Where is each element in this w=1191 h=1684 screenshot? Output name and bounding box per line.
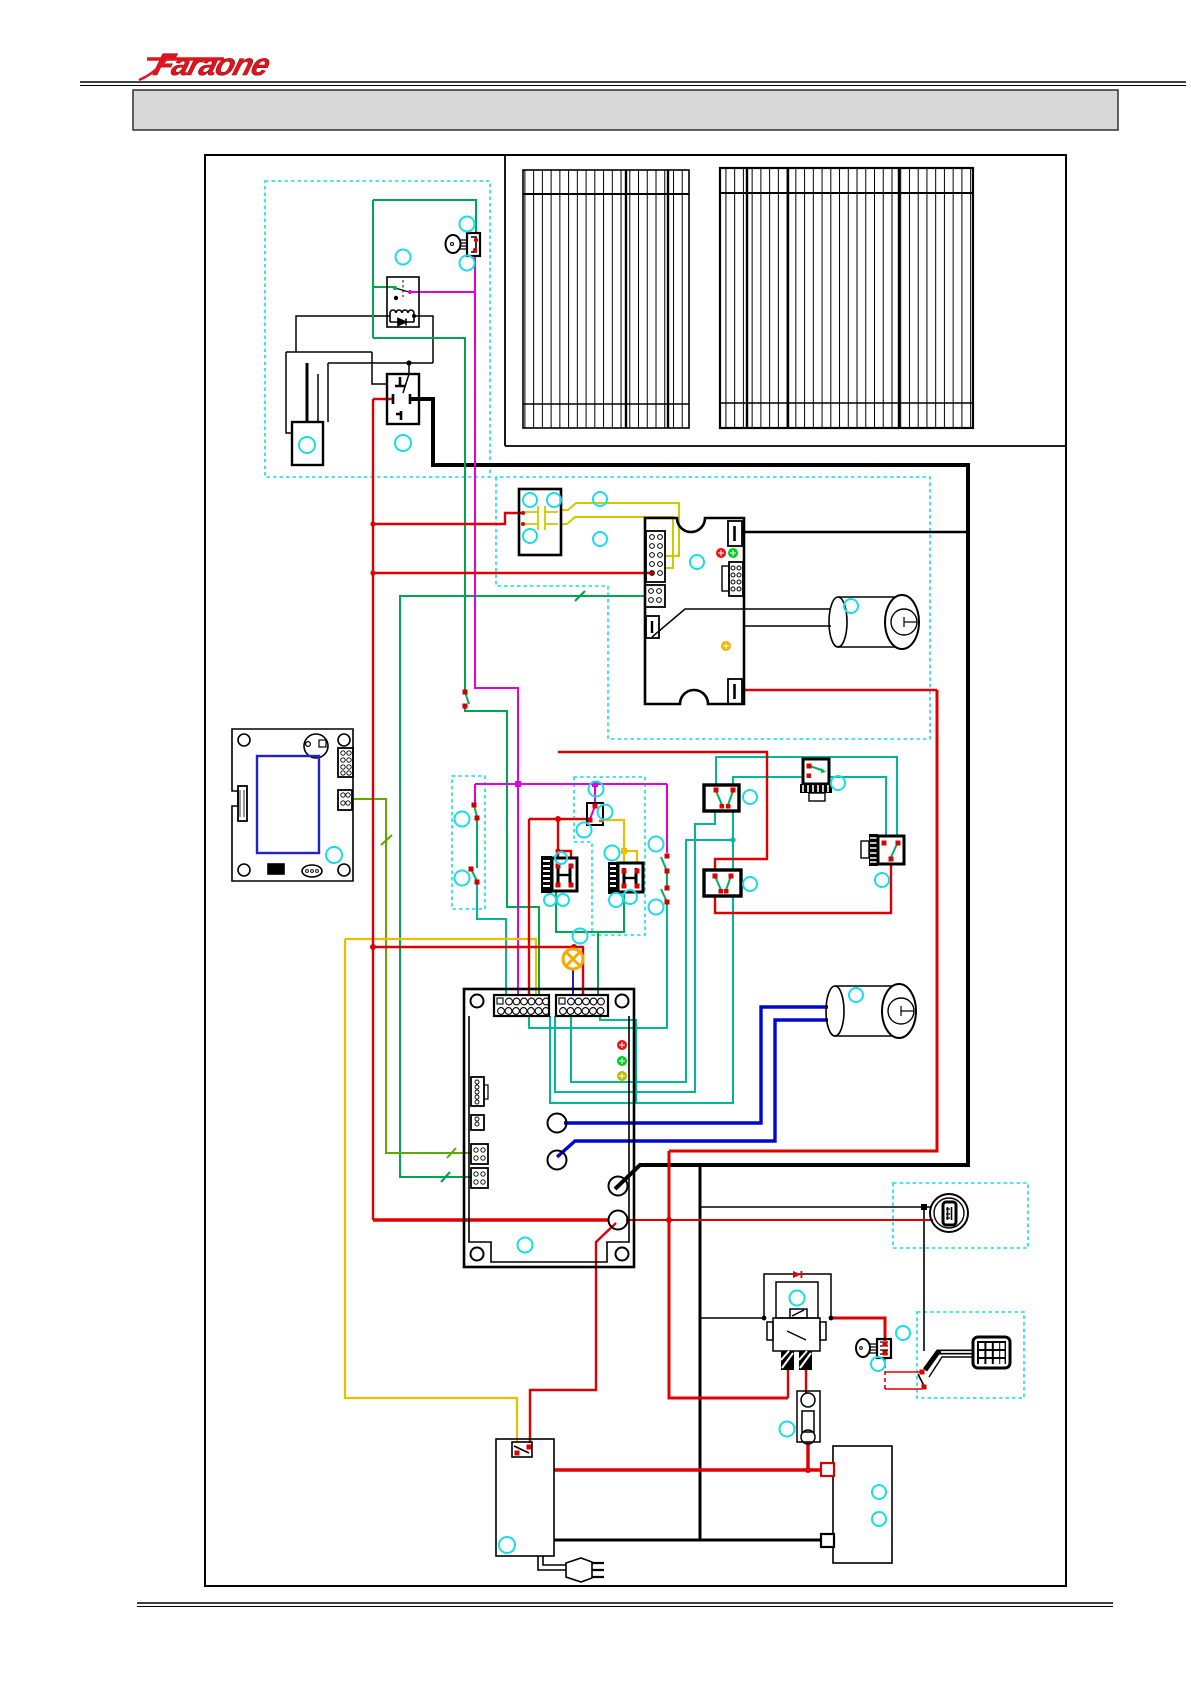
- svg-text:Faraone: Faraone: [150, 47, 274, 82]
